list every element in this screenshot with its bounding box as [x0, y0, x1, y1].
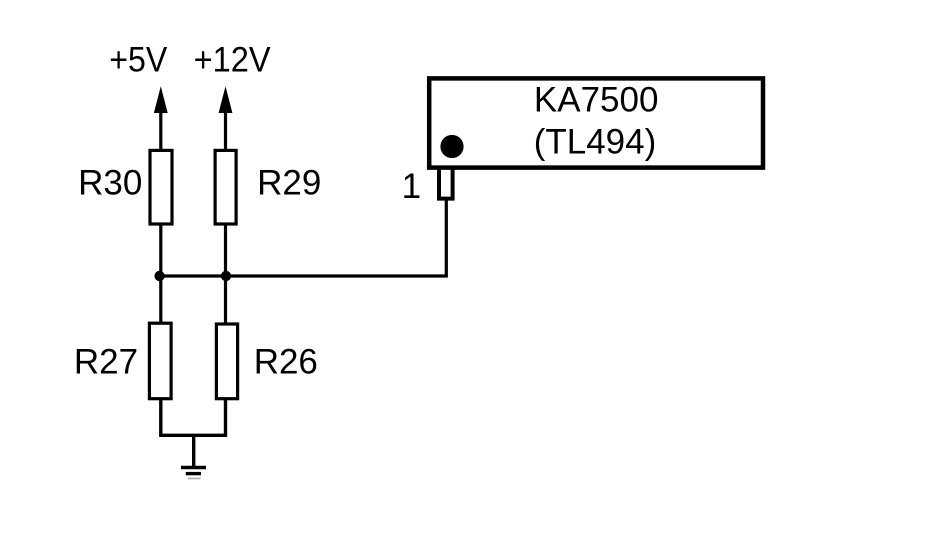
svg-text:R30: R30: [78, 164, 142, 203]
svg-text:R26: R26: [254, 343, 318, 382]
resistor R29: [215, 150, 236, 224]
junction node A dot: [154, 271, 164, 281]
svg-text:+5V: +5V: [109, 41, 168, 80]
wire node A to R27: [159, 276, 162, 323]
svg-text:KA7500: KA7500: [534, 81, 659, 120]
resistor R26: [216, 324, 237, 399]
IC U1 KA7500 box: [429, 78, 763, 167]
power arrow +5V: [154, 86, 168, 150]
ground: [181, 435, 206, 478]
svg-text:1: 1: [402, 167, 421, 206]
svg-text:R27: R27: [74, 343, 138, 382]
svg-text:+12V: +12V: [194, 41, 272, 80]
wire R30 bottom to node A: [159, 224, 162, 276]
svg-text:R29: R29: [257, 164, 321, 203]
svg-text:(TL494): (TL494): [534, 123, 657, 162]
junction node B dot: [221, 271, 231, 281]
power arrow +12V: [219, 86, 233, 150]
resistor R27: [149, 323, 171, 399]
wire R29 bottom to node B: [224, 224, 227, 276]
wire node B to R26: [224, 276, 227, 324]
IC U1 pin 1 pad: [439, 168, 453, 199]
wire R27 and R26 bottoms to ground rail: [161, 398, 226, 435]
wire node A to node B to IC pin 1: [160, 200, 447, 276]
resistor R30: [150, 150, 172, 224]
IC U1 pin 1 marker dot: [440, 135, 463, 158]
